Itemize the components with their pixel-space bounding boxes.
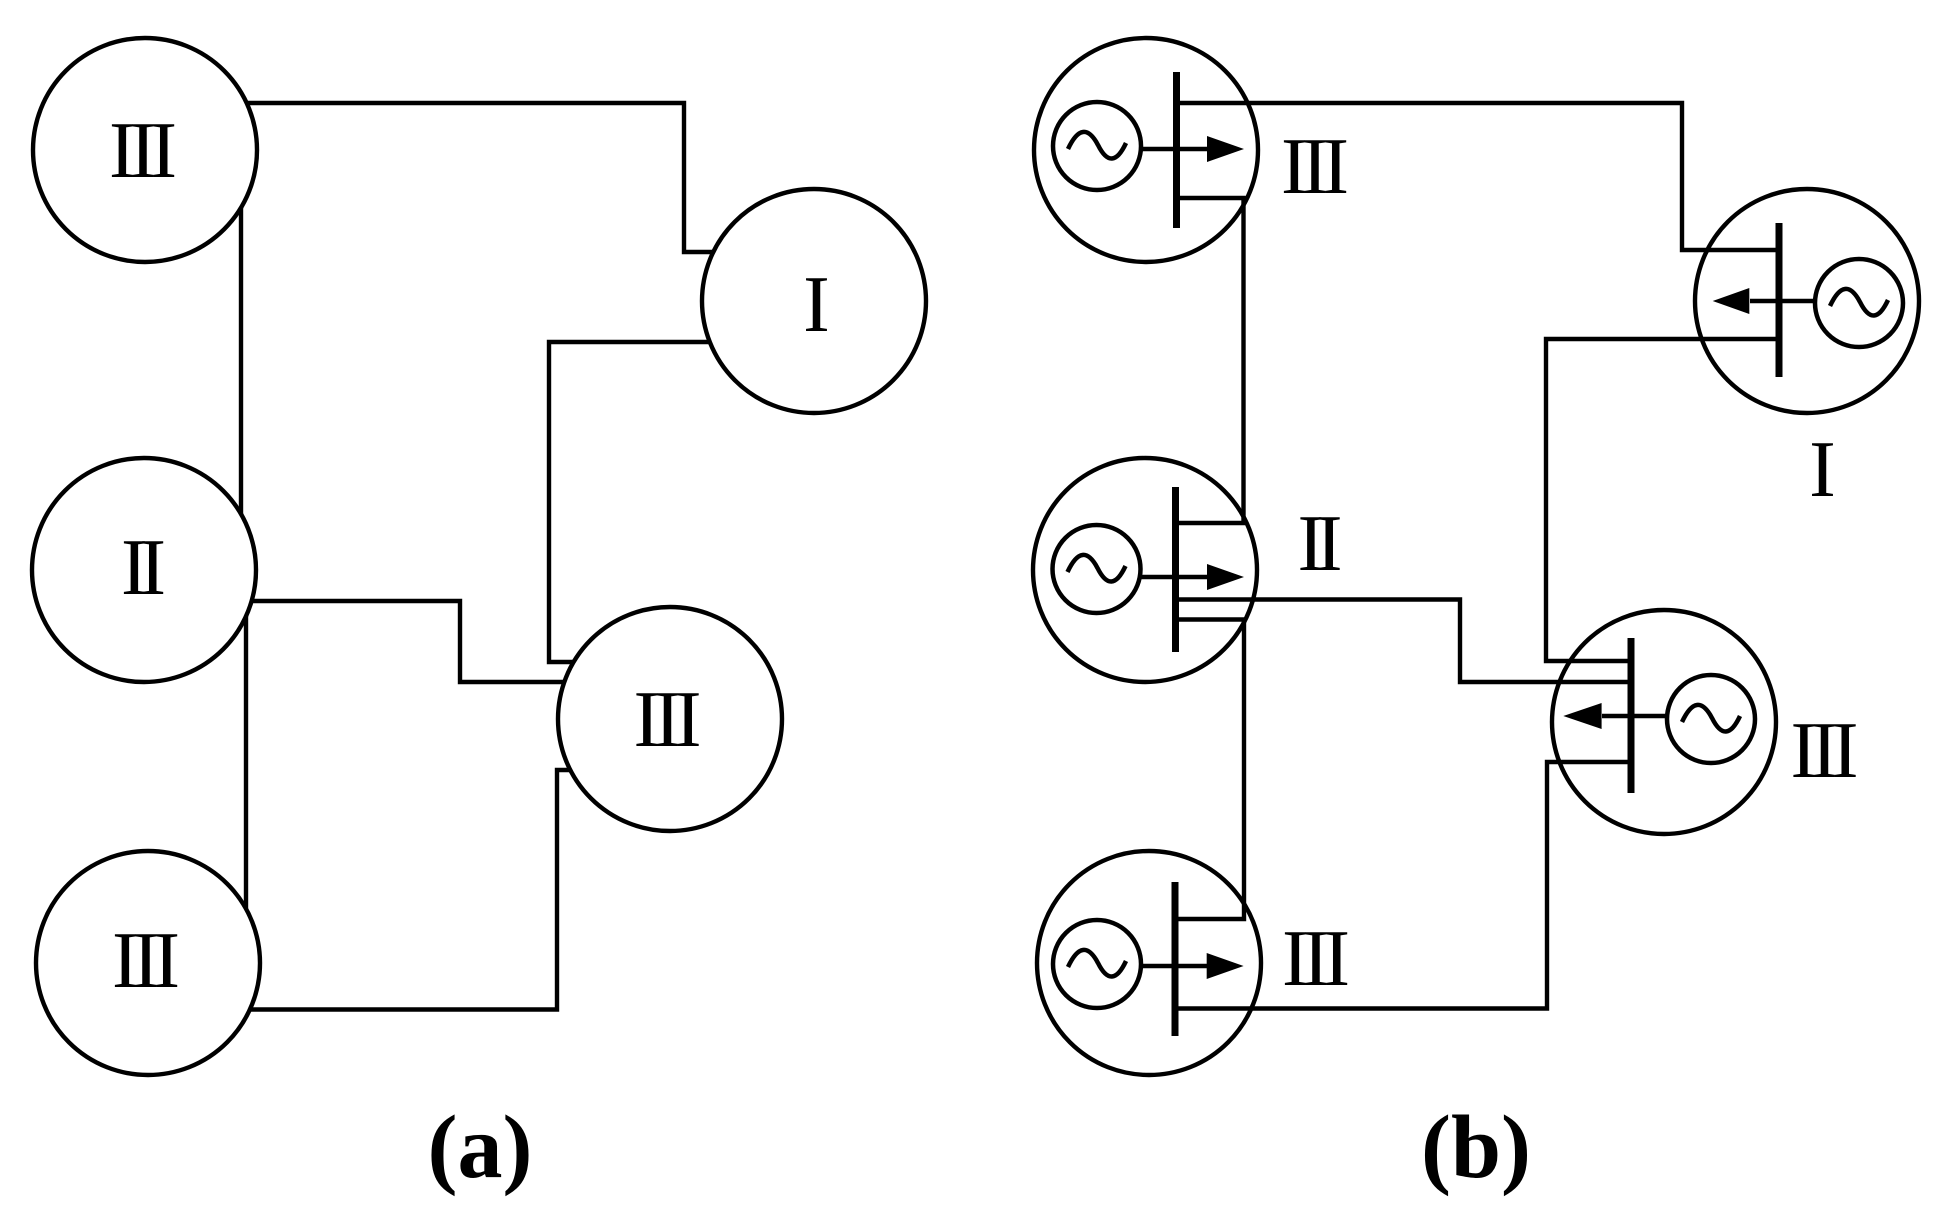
- node circle III bottom-left (a): [36, 851, 260, 1075]
- arrowhead into bus III top (b): [1207, 136, 1244, 162]
- generator circle II (b): [1053, 525, 1141, 613]
- arrowhead into bus II (b): [1207, 564, 1244, 590]
- wire node III(top) to node I: [145, 103, 814, 252]
- generator sine II (b): [1068, 555, 1126, 582]
- busbar II (b): [1172, 487, 1179, 652]
- arrow line generator to bus II (b): [1096, 575, 1208, 580]
- svg-text:(b): (b): [1421, 1098, 1531, 1197]
- arrowhead into bus III bottom (b): [1207, 953, 1244, 979]
- wire bus II to bus III(mid-right) (b): [1176, 600, 1631, 683]
- node circle III bottom (b): [1037, 851, 1261, 1075]
- node III bottom (b) internals: [1053, 882, 1244, 1036]
- wire node III(top) to node II: [239, 150, 243, 570]
- node circle I (a): [702, 189, 926, 413]
- svg-text:III: III: [1282, 915, 1350, 1003]
- node circle III mid-right (a): [558, 607, 782, 831]
- wire node II to node III(mid-right): [144, 601, 670, 682]
- wire node II to node III(bottom): [244, 570, 248, 963]
- generator circle III mid-right (b): [1667, 675, 1755, 763]
- generator sine III top (b): [1068, 132, 1126, 159]
- wire bus I to bus III(mid-right) (b): [1546, 339, 1779, 661]
- svg-text:III: III: [1281, 123, 1349, 211]
- generator sine III bottom (b): [1068, 950, 1126, 977]
- node III mid-right (b) internals: [1563, 638, 1755, 793]
- node circle III top-left (a): [33, 38, 257, 262]
- busbar III top (b): [1173, 72, 1180, 228]
- arrow line generator to bus I (b): [1750, 299, 1859, 304]
- svg-text:II: II: [1298, 500, 1343, 588]
- svg-text:III: III: [634, 676, 702, 764]
- node circle I (b): [1695, 189, 1919, 413]
- wire node I to node III(mid-right): [549, 342, 814, 662]
- wire bus III(bottom) to bus III(mid-right) (b): [1176, 762, 1631, 1009]
- node I (b) internals: [1713, 223, 1903, 377]
- arrowhead into bus I (b): [1713, 288, 1750, 314]
- node circle II (b): [1033, 458, 1257, 682]
- busbar III bottom (b): [1172, 882, 1179, 1036]
- busbar III mid-right (b): [1628, 638, 1635, 793]
- node III top (b) internals: [1053, 72, 1244, 228]
- node circle III top (b): [1034, 38, 1258, 262]
- generator sine III mid-right (b): [1682, 705, 1740, 732]
- generator circle III bottom (b): [1053, 920, 1141, 1008]
- svg-text:III: III: [112, 917, 180, 1005]
- node circle III mid-right (b): [1552, 610, 1776, 834]
- svg-text:(a): (a): [428, 1098, 533, 1197]
- busbar I (b): [1776, 223, 1783, 377]
- wire node III(bottom) to node III(mid-right): [148, 770, 670, 1010]
- svg-text:II: II: [121, 524, 166, 612]
- node II (b) internals: [1053, 487, 1245, 652]
- arrow line generator to bus III mid-right (b): [1602, 714, 1711, 719]
- arrow line generator to bus III bottom (b): [1097, 964, 1208, 969]
- svg-text:III: III: [109, 107, 177, 195]
- node circle II (a): [32, 458, 256, 682]
- svg-text:III: III: [1791, 707, 1859, 795]
- wire bus III(top) to bus II (b): [1176, 198, 1244, 523]
- arrowhead into bus III mid-right (b): [1563, 703, 1601, 729]
- wire bus II to bus III(bottom) (b): [1176, 620, 1244, 920]
- arrow line generator to bus III top (b): [1097, 147, 1208, 152]
- generator sine I (b): [1830, 289, 1888, 316]
- wire bus III(top) to bus I (b): [1176, 103, 1779, 250]
- svg-text:I: I: [1809, 426, 1836, 514]
- generator circle I (b): [1815, 259, 1903, 347]
- svg-text:I: I: [803, 261, 830, 349]
- generator circle III top (b): [1053, 102, 1141, 190]
